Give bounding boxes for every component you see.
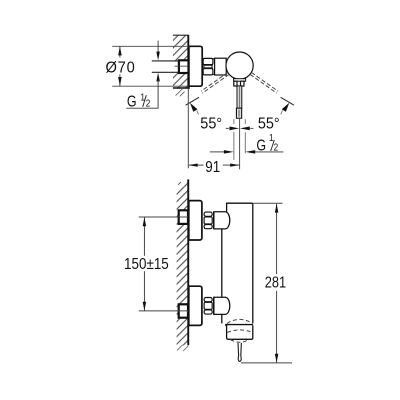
wall face line (top view) — [187, 35, 189, 89]
svg-text:G: G — [256, 137, 266, 155]
wall face line (front view) — [187, 179, 189, 345]
svg-text:G: G — [127, 93, 137, 111]
faucet body (front view) — [222, 203, 253, 324]
svg-text:Ø70: Ø70 — [105, 59, 135, 77]
lever handle (top view) — [236, 86, 241, 118]
dashed arc inside outlet cup — [227, 330, 252, 333]
faucet body circle (top view) — [226, 52, 253, 79]
dimension 281 (front view) — [241, 203, 292, 363]
lever centre line (top view) — [239, 119, 241, 170]
dimension Ø70 (top view) — [105, 46, 188, 86]
lever swing dashed line left 55deg — [186, 72, 230, 114]
svg-text:2: 2 — [146, 98, 151, 109]
wall section (top view) — [173, 35, 190, 96]
escutcheon rosette (top view) — [189, 46, 202, 86]
outlet cup (front view) — [227, 325, 253, 339]
union nut (top view) — [203, 58, 213, 75]
dashed arc below outlet cup — [230, 340, 249, 343]
outlet thread extension lines (top view) — [234, 119, 245, 160]
svg-text:281: 281 — [265, 274, 286, 292]
svg-text:2: 2 — [274, 142, 279, 153]
S-union horn upper (front view) — [214, 212, 230, 229]
inlet horn (top view) — [213, 58, 226, 75]
angle dimension arrows at centerline (top view) — [226, 127, 254, 131]
escutcheon lower (front view) — [189, 286, 202, 325]
svg-text:55°: 55° — [258, 115, 280, 133]
lever base (top view) — [234, 79, 246, 86]
dimension 150±15 (front view) — [124, 217, 188, 311]
union nut upper (front view) — [204, 212, 212, 229]
svg-text:55°: 55° — [200, 115, 222, 133]
dimension G1/2 left with leader (top view) — [126, 41, 160, 111]
water drip nozzle (front view) — [238, 343, 241, 362]
svg-text:150±15: 150±15 — [124, 256, 169, 273]
dimension 91 (top view) — [188, 89, 239, 177]
dimension G1/2 right with leader (top view) — [210, 133, 284, 156]
union nut lower (front view) — [204, 298, 212, 315]
G1/2 thread in wall (top view) — [175, 60, 189, 73]
dashed arc above outlet — [227, 319, 252, 323]
supply pipe (top view) — [152, 61, 180, 72]
S-union horn lower (front view) — [214, 297, 230, 314]
wall section (front view) — [177, 179, 189, 351]
svg-text:91: 91 — [205, 159, 220, 176]
G1/2 thread in wall upper (front view) — [179, 210, 188, 224]
outlet joint line (front view) — [225, 324, 253, 326]
lever swing dashed line right 55deg — [250, 72, 294, 114]
G1/2 thread in wall lower (front view) — [179, 304, 188, 317]
escutcheon upper (front view) — [189, 201, 202, 240]
